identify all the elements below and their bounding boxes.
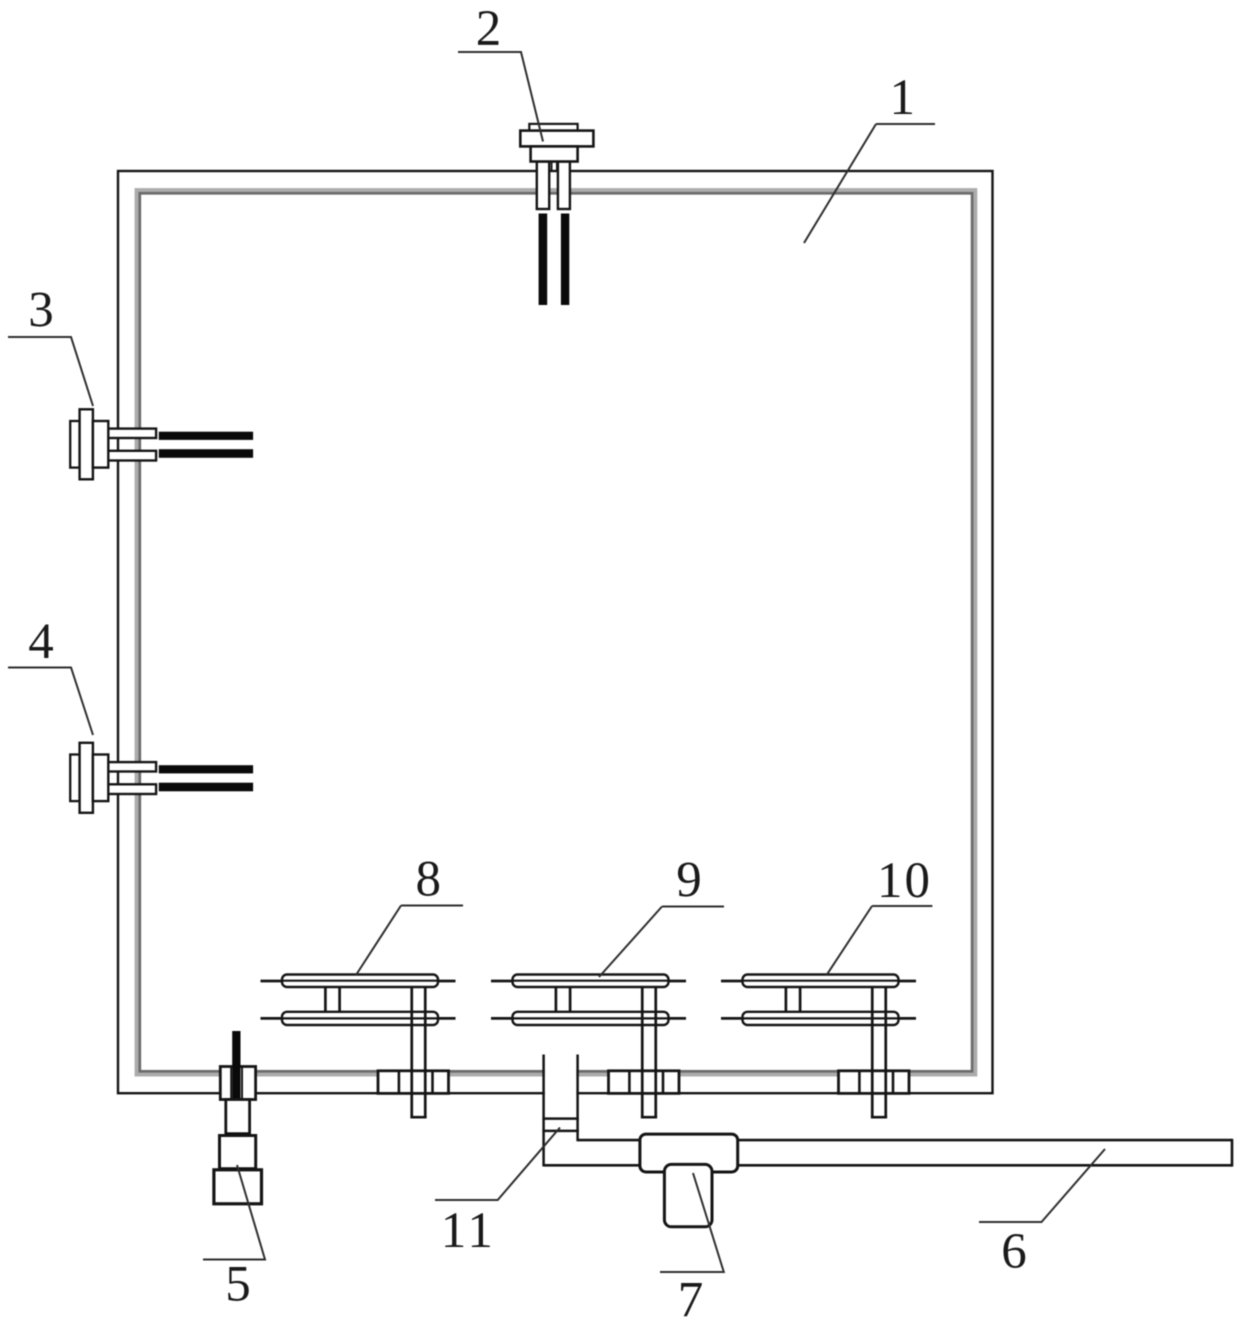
svg-text:6: 6	[1001, 1224, 1027, 1280]
svg-text:10: 10	[877, 853, 932, 909]
svg-text:3: 3	[28, 283, 54, 339]
svg-text:11: 11	[441, 1203, 496, 1259]
svg-text:7: 7	[678, 1273, 704, 1326]
svg-text:2: 2	[476, 1, 502, 57]
svg-text:5: 5	[225, 1257, 251, 1313]
svg-text:8: 8	[416, 852, 442, 908]
svg-text:1: 1	[890, 70, 916, 126]
svg-text:4: 4	[28, 614, 54, 670]
svg-text:9: 9	[676, 853, 702, 909]
